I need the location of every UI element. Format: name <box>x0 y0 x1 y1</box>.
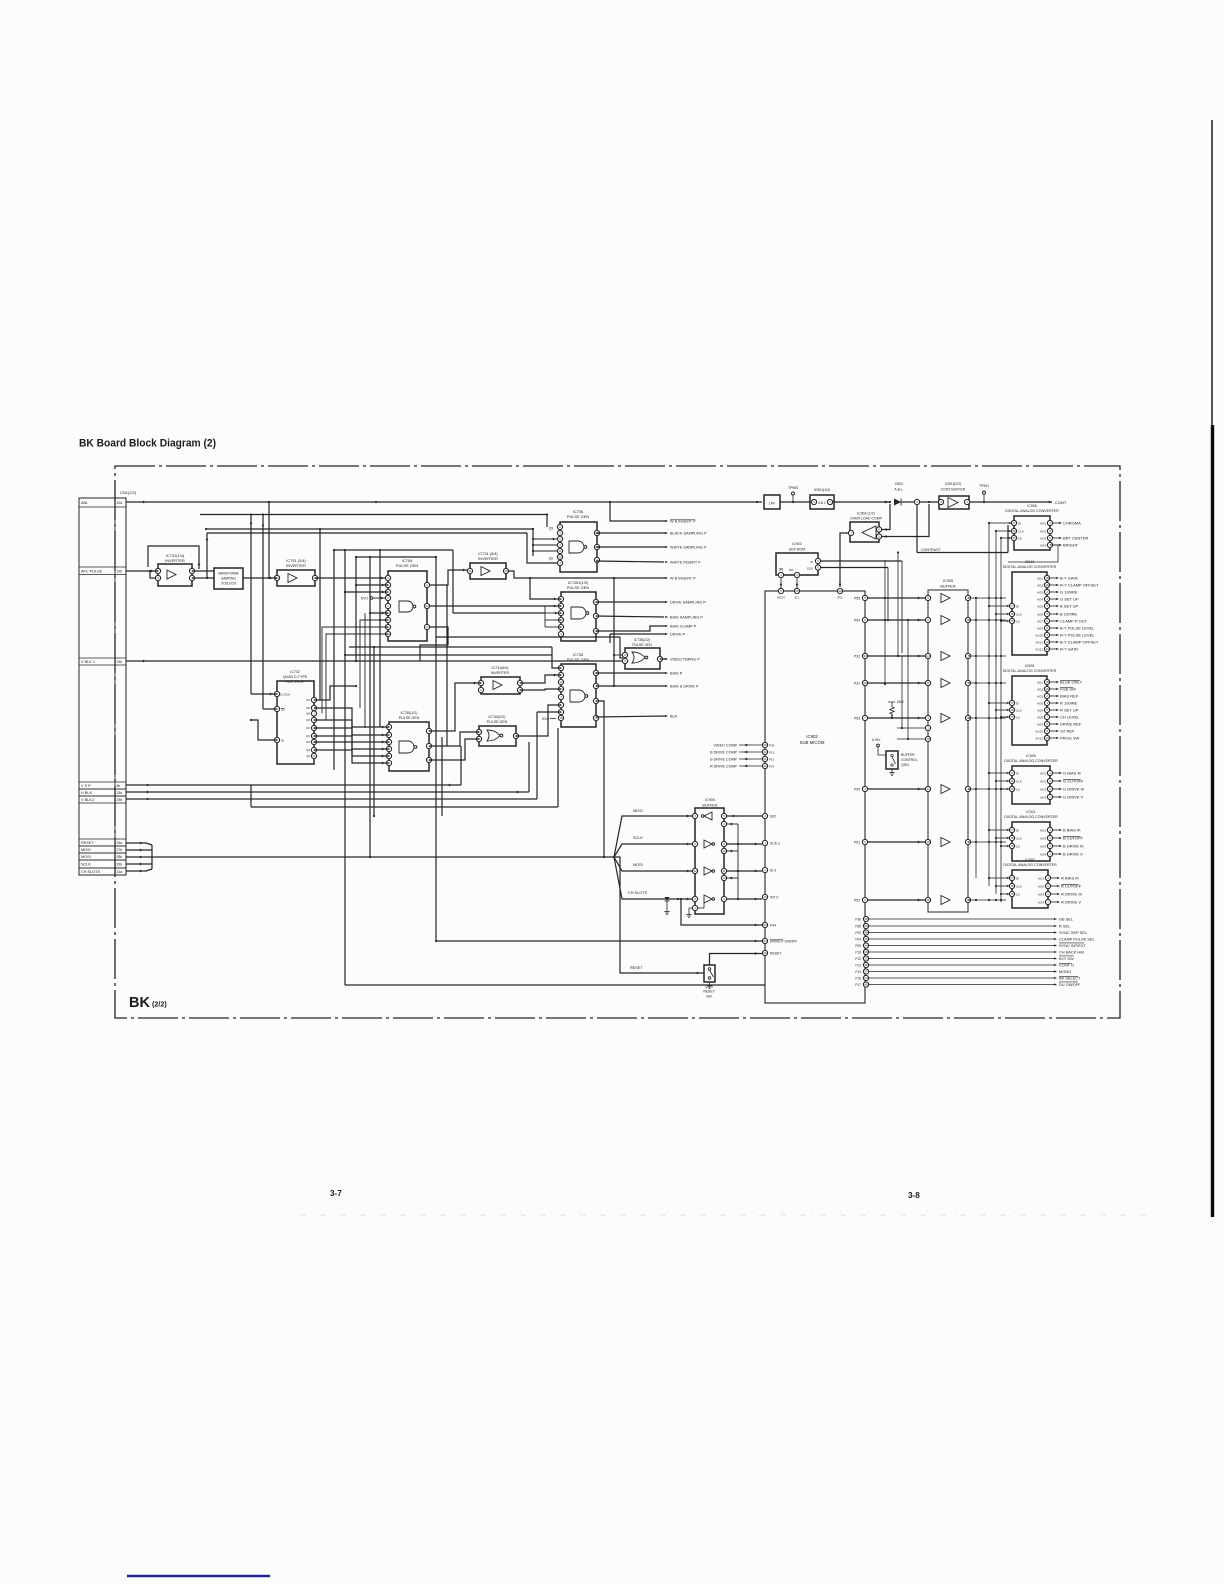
svg-text:13: 13 <box>926 654 930 658</box>
svg-text:P12: P12 <box>855 957 861 961</box>
svg-text:35: 35 <box>864 950 868 954</box>
svg-text:CLK: CLK <box>1016 779 1022 783</box>
svg-text:TP900: TP900 <box>788 486 798 490</box>
svg-text:MONO: MONO <box>1059 969 1071 974</box>
svg-text:AO4: AO4 <box>1038 900 1044 904</box>
svg-text:SO: SO <box>789 568 794 572</box>
svg-text:Q5: Q5 <box>549 527 553 531</box>
svg-text:46: 46 <box>864 983 868 987</box>
svg-text:AO2: AO2 <box>1040 779 1046 783</box>
svg-text:DIGITAL-ANALOG CONVERTER: DIGITAL-ANALOG CONVERTER <box>1003 863 1057 867</box>
svg-text:13: 13 <box>1045 736 1049 740</box>
svg-text:R 100IRE: R 100IRE <box>1060 701 1078 706</box>
svg-text:Q3: Q3 <box>306 748 310 752</box>
svg-text:37: 37 <box>864 970 868 974</box>
svg-text:56: 56 <box>864 924 868 928</box>
svg-text:INT 0: INT 0 <box>770 895 778 899</box>
svg-text:D5V: D5V <box>897 700 904 704</box>
svg-text:16: 16 <box>1012 529 1016 533</box>
svg-text:BUFFER: BUFFER <box>901 753 915 757</box>
svg-text:11: 11 <box>558 549 561 553</box>
svg-text:11: 11 <box>926 681 929 685</box>
svg-text:BIAS P: BIAS P <box>670 672 683 676</box>
svg-text:32: 32 <box>863 681 867 685</box>
svg-text:AO10: AO10 <box>1035 729 1043 733</box>
svg-text:AFC PULSE: AFC PULSE <box>81 569 103 573</box>
svg-text:SYNC SEP SEL: SYNC SEP SEL <box>1059 930 1088 935</box>
svg-text:WAVEFORME: WAVEFORME <box>218 572 239 576</box>
svg-text:B-Y PULSE LEVEL: B-Y PULSE LEVEL <box>1060 626 1095 631</box>
svg-text:MOSI: MOSI <box>633 863 643 867</box>
svg-text:DIGITAL-ANALOG CONVERTER: DIGITAL-ANALOG CONVERTER <box>1003 669 1057 673</box>
svg-text:PULSE GEN: PULSE GEN <box>396 563 418 568</box>
svg-text:AO1: AO1 <box>1040 521 1046 525</box>
svg-text:SI: SI <box>810 560 813 564</box>
svg-text:13: 13 <box>722 876 726 880</box>
svg-text:P11: P11 <box>769 750 774 754</box>
svg-text:WHITE INSERT P: WHITE INSERT P <box>670 561 701 565</box>
svg-text:AO6: AO6 <box>1037 612 1043 616</box>
svg-text:SW: SW <box>706 995 712 999</box>
svg-text:RESET: RESET <box>770 951 781 955</box>
svg-text:G DRIVE IK: G DRIVE IK <box>1063 787 1085 792</box>
svg-text:P02: P02 <box>837 596 843 600</box>
svg-text:P35: P35 <box>855 924 861 928</box>
svg-text:3-8: 3-8 <box>908 1191 920 1200</box>
svg-text:V BLK2: V BLK2 <box>81 798 94 802</box>
svg-text:17: 17 <box>1010 604 1014 608</box>
svg-text:Q2: Q2 <box>306 754 310 758</box>
svg-text:BLK: BLK <box>670 715 678 719</box>
svg-text:P51: P51 <box>854 840 860 844</box>
svg-text:R SEL: R SEL <box>1059 924 1071 929</box>
svg-text:ABL: ABL <box>81 501 88 505</box>
svg-text:AO1: AO1 <box>1038 876 1044 880</box>
svg-text:AO4: AO4 <box>1040 852 1046 856</box>
svg-text:P17: P17 <box>855 983 861 987</box>
svg-text:12: 12 <box>559 680 563 684</box>
svg-text:SAMPING: SAMPING <box>221 577 236 581</box>
svg-text:A.B.L.: A.B.L. <box>894 488 903 492</box>
svg-text:15: 15 <box>1010 715 1014 719</box>
svg-text:IC902: IC902 <box>806 734 818 739</box>
svg-text:B SET UP: B SET UP <box>1060 604 1078 609</box>
svg-text:10: 10 <box>722 849 726 853</box>
svg-text:P53: P53 <box>854 716 860 720</box>
svg-text:R DRIVE IK: R DRIVE IK <box>1061 892 1082 897</box>
svg-text:Q3: Q3 <box>306 734 310 738</box>
svg-text:15: 15 <box>1010 892 1014 896</box>
svg-text:31a: 31a <box>117 870 123 874</box>
svg-text:CONTROL: CONTROL <box>901 758 918 762</box>
svg-text:17: 17 <box>926 787 930 791</box>
svg-text:CLAMP P OUT: CLAMP P OUT <box>1060 619 1088 624</box>
svg-text:SI-2: SI-2 <box>770 868 776 872</box>
svg-text:R BIAS IK: R BIAS IK <box>1061 876 1079 881</box>
svg-text:AO4: AO4 <box>1037 597 1043 601</box>
svg-text:BUFFER: BUFFER <box>702 804 717 808</box>
svg-text:B-Y GAIN: B-Y GAIN <box>1060 576 1078 581</box>
svg-text:26a: 26a <box>117 841 123 845</box>
svg-text:18: 18 <box>926 840 930 844</box>
svg-text:V BLK 1: V BLK 1 <box>81 660 95 664</box>
svg-text:R-Y GAIN: R-Y GAIN <box>1060 647 1078 652</box>
svg-text:12: 12 <box>425 604 429 608</box>
svg-text:IC907: IC907 <box>1025 858 1035 862</box>
svg-text:DI: DI <box>1016 828 1019 832</box>
svg-text:AO12: AO12 <box>1035 736 1043 740</box>
svg-text:AO9: AO9 <box>1037 626 1043 630</box>
svg-text:DI: DI <box>1016 876 1019 880</box>
svg-text:PULSE GEN: PULSE GEN <box>567 585 589 590</box>
svg-text:33: 33 <box>864 957 868 961</box>
svg-text:PULSE GEN: PULSE GEN <box>487 720 508 724</box>
svg-text:CONT BUFFER: CONT BUFFER <box>941 488 966 492</box>
svg-text:3-7: 3-7 <box>330 1189 342 1198</box>
svg-text:P32: P32 <box>854 654 860 658</box>
svg-text:12: 12 <box>693 869 697 873</box>
svg-text:DI: DI <box>1016 701 1019 705</box>
svg-text:33: 33 <box>863 654 867 658</box>
svg-text:16: 16 <box>1010 884 1014 888</box>
svg-text:IK/Y SW: IK/Y SW <box>1059 956 1074 961</box>
svg-text:Q901: Q901 <box>901 763 909 767</box>
svg-text:Q0: Q0 <box>549 557 553 561</box>
svg-text:P36: P36 <box>855 917 861 921</box>
svg-text:SCLK: SCLK <box>633 836 643 840</box>
svg-text:PULSE GEN: PULSE GEN <box>399 716 420 720</box>
svg-text:Q0: Q0 <box>306 712 310 716</box>
svg-text:SCLK: SCLK <box>81 863 91 867</box>
svg-text:P44: P44 <box>770 923 776 927</box>
svg-text:IC911: IC911 <box>1026 810 1035 814</box>
svg-text:AO12: AO12 <box>1035 647 1043 651</box>
svg-text:19: 19 <box>1045 583 1049 587</box>
svg-text:CLK: CLK <box>1018 529 1024 533</box>
svg-text:AO1: AO1 <box>1037 576 1043 580</box>
svg-text:P55: P55 <box>854 596 860 600</box>
svg-text:43: 43 <box>763 939 767 943</box>
svg-text:INVERTER: INVERTER <box>286 563 306 568</box>
svg-text:G BIAS IK: G BIAS IK <box>1063 771 1082 776</box>
svg-text:AO5: AO5 <box>1037 701 1043 705</box>
svg-text:IC732: IC732 <box>290 670 300 674</box>
svg-text:EEP ROM: EEP ROM <box>789 548 805 552</box>
svg-text:15: 15 <box>1012 536 1016 540</box>
svg-text:24b: 24b <box>117 660 123 664</box>
svg-text:IC905: IC905 <box>943 579 953 583</box>
svg-text:B BIAS IK: B BIAS IK <box>1063 828 1081 833</box>
svg-text:INVERTER: INVERTER <box>165 558 185 563</box>
svg-text:TP901: TP901 <box>979 484 989 488</box>
svg-text:18: 18 <box>1045 576 1049 580</box>
svg-text:B DRIVE COMP: B DRIVE COMP <box>710 750 737 754</box>
svg-text:17: 17 <box>1012 521 1016 525</box>
svg-text:DRIVE SAMPLING P: DRIVE SAMPLING P <box>670 601 706 605</box>
svg-text:H BLK: H BLK <box>81 791 92 795</box>
svg-text:41: 41 <box>763 757 767 761</box>
svg-text:17: 17 <box>1010 828 1014 832</box>
svg-text:MISO: MISO <box>81 848 91 852</box>
svg-text:AO2: AO2 <box>1037 687 1043 691</box>
svg-text:QUAD D-TYPE: QUAD D-TYPE <box>283 675 308 679</box>
svg-text:RESET: RESET <box>630 966 643 970</box>
svg-text:P03: P03 <box>855 931 861 935</box>
svg-text:CLK: CLK <box>1016 836 1022 840</box>
svg-text:IC900: IC900 <box>705 798 715 802</box>
svg-text:17: 17 <box>1010 876 1014 880</box>
svg-text:PROG SW: PROG SW <box>1060 736 1080 741</box>
svg-text:DIGITAL-ANALOG CONVERTER: DIGITAL-ANALOG CONVERTER <box>1005 509 1059 513</box>
svg-text:25b: 25b <box>117 798 123 802</box>
svg-text:GB SEL: GB SEL <box>1059 917 1074 922</box>
svg-text:CLAMP PULSE SEL: CLAMP PULSE SEL <box>1059 937 1095 942</box>
svg-text:15: 15 <box>1010 844 1014 848</box>
svg-text:55: 55 <box>763 743 767 747</box>
svg-text:AO4: AO4 <box>1040 543 1046 547</box>
svg-text:DIGITAL-ANALOG CONVERTER: DIGITAL-ANALOG CONVERTER <box>1004 815 1058 819</box>
svg-text:0728,0729: 0728,0729 <box>221 582 236 586</box>
svg-text:CH SLOTS: CH SLOTS <box>81 870 100 874</box>
svg-text:IC903: IC903 <box>792 542 801 546</box>
svg-text:FLIP-FLOP: FLIP-FLOP <box>286 680 305 684</box>
svg-text:(2/2): (2/2) <box>152 1000 167 1009</box>
svg-text:D0: D0 <box>306 706 310 710</box>
svg-text:16: 16 <box>1010 708 1014 712</box>
svg-text:DIGITAL-ANALOG CONVERTER: DIGITAL-ANALOG CONVERTER <box>1003 565 1057 569</box>
svg-text:INVERTER: INVERTER <box>491 671 510 675</box>
svg-text:AO6: AO6 <box>1037 708 1043 712</box>
svg-text:DRIVE REF: DRIVE REF <box>1060 722 1082 727</box>
svg-text:S02: S02 <box>770 814 776 818</box>
svg-text:AO3: AO3 <box>1040 536 1046 540</box>
svg-text:R-Y PULSE LEVEL: R-Y PULSE LEVEL <box>1060 633 1095 638</box>
svg-text:G DRIVE V: G DRIVE V <box>1063 795 1084 800</box>
svg-text:D2: D2 <box>306 726 310 730</box>
svg-text:29: 29 <box>763 951 767 955</box>
svg-text:MOSI: MOSI <box>81 855 91 859</box>
svg-text:P52: P52 <box>854 898 860 902</box>
svg-text:IC730(2/2): IC730(2/2) <box>489 715 506 719</box>
svg-text:CLK: CLK <box>1016 708 1022 712</box>
svg-text:DI: DI <box>1016 604 1019 608</box>
svg-text:BRT CENTER: BRT CENTER <box>1063 536 1089 541</box>
svg-text:48: 48 <box>864 931 868 935</box>
svg-text:IC909: IC909 <box>1026 754 1036 758</box>
svg-text:SUB MICOM: SUB MICOM <box>800 740 825 745</box>
svg-text:R-Y CLAMP OFFSET: R-Y CLAMP OFFSET <box>1060 583 1099 588</box>
svg-text:VIDEO TIMING P: VIDEO TIMING P <box>670 658 700 662</box>
svg-text:PULSE GEN: PULSE GEN <box>567 514 589 519</box>
svg-text:G 100IRE: G 100IRE <box>1060 590 1078 595</box>
svg-text:AO3: AO3 <box>1040 844 1046 848</box>
svg-text:AO1: AO1 <box>1040 828 1046 832</box>
svg-text:CHROMA: CHROMA <box>1063 521 1081 526</box>
svg-text:D1: D1 <box>306 698 310 702</box>
svg-text:15: 15 <box>926 898 930 902</box>
svg-text:16: 16 <box>1010 779 1014 783</box>
svg-text:28b: 28b <box>117 855 123 859</box>
svg-text:AO2: AO2 <box>1040 529 1046 533</box>
svg-text:56: 56 <box>795 589 799 593</box>
svg-text:19b: 19b <box>117 569 123 573</box>
svg-text:B DRIVE V: B DRIVE V <box>1063 852 1083 857</box>
svg-text:AO1: AO1 <box>1040 771 1046 775</box>
svg-text:BRIGHT: BRIGHT <box>1063 543 1079 548</box>
svg-text:IC901(2/2): IC901(2/2) <box>945 482 962 486</box>
svg-text:9b: 9b <box>117 784 121 788</box>
svg-text:40: 40 <box>838 589 842 593</box>
svg-text:AO3: AO3 <box>1038 892 1044 896</box>
svg-text:AO7: AO7 <box>1037 619 1043 623</box>
svg-text:D3: D3 <box>306 740 310 744</box>
svg-text:AO2: AO2 <box>1037 583 1043 587</box>
svg-text:AO8: AO8 <box>1037 715 1043 719</box>
svg-text:CH LEVEL: CH LEVEL <box>1060 715 1080 720</box>
svg-text:BIAS & DRIVE P: BIAS & DRIVE P <box>670 685 699 689</box>
svg-text:16: 16 <box>1010 836 1014 840</box>
svg-text:CN1(2/2): CN1(2/2) <box>120 490 137 495</box>
svg-text:G SET UP: G SET UP <box>1060 597 1079 602</box>
svg-text:SCK-2: SCK-2 <box>770 841 780 845</box>
svg-text:SVO: SVO <box>361 597 369 601</box>
svg-text:A+5V: A+5V <box>872 738 881 742</box>
svg-text:P16: P16 <box>855 950 861 954</box>
svg-text:IC730(1/2): IC730(1/2) <box>401 711 418 715</box>
svg-text:AO3: AO3 <box>1037 694 1043 698</box>
svg-text:44: 44 <box>864 944 868 948</box>
svg-text:10a: 10a <box>117 501 123 505</box>
svg-text:W B INSERT P: W B INSERT P <box>670 520 696 524</box>
svg-text:40: 40 <box>763 750 767 754</box>
svg-text:B DRIVE IK: B DRIVE IK <box>1063 844 1084 849</box>
svg-text:19: 19 <box>1045 687 1049 691</box>
svg-text:23a: 23a <box>117 791 123 795</box>
svg-text:DU ON/OFF: DU ON/OFF <box>1059 982 1081 987</box>
svg-text:P34: P34 <box>769 743 775 747</box>
svg-text:P31: P31 <box>854 681 860 685</box>
svg-text:WHITE SAMPLING P: WHITE SAMPLING P <box>670 546 707 550</box>
svg-text:V S P: V S P <box>81 784 91 788</box>
svg-text:IC901(1/2): IC901(1/2) <box>814 488 831 492</box>
svg-text:BUFFER: BUFFER <box>940 585 955 589</box>
svg-text:INVERTER: INVERTER <box>478 556 498 561</box>
svg-text:SYNC INT/EXT: SYNC INT/EXT <box>1059 943 1086 948</box>
svg-text:RESET: RESET <box>703 990 714 994</box>
svg-text:27b: 27b <box>117 848 123 852</box>
svg-text:CLOCK: CLOCK <box>280 693 290 697</box>
svg-text:17: 17 <box>1010 701 1014 705</box>
svg-text:ADST: ADST <box>777 596 785 600</box>
svg-text:DI: DI <box>1016 771 1019 775</box>
svg-text:R DRIVE COMP: R DRIVE COMP <box>710 764 738 768</box>
svg-text:AO4: AO4 <box>1040 795 1046 799</box>
svg-text:LPF: LPF <box>769 502 776 506</box>
svg-text:P04: P04 <box>855 937 861 941</box>
svg-text:G2 REF: G2 REF <box>1060 729 1075 734</box>
svg-text:18: 18 <box>1045 680 1049 684</box>
svg-text:CH SLOTS: CH SLOTS <box>628 891 647 895</box>
svg-text:P10: P10 <box>769 757 775 761</box>
svg-text:G DRIVE COMP: G DRIVE COMP <box>710 757 738 761</box>
svg-text:DIGITAL-ANALOG CONVERTER: DIGITAL-ANALOG CONVERTER <box>1004 759 1058 763</box>
svg-text:29b: 29b <box>117 863 123 867</box>
svg-text:15: 15 <box>1010 787 1014 791</box>
svg-text:PULSE GEN: PULSE GEN <box>632 643 652 647</box>
svg-text:CLK: CLK <box>1016 612 1022 616</box>
svg-text:BLACK SAMPLING P: BLACK SAMPLING P <box>670 532 707 536</box>
svg-text:P15: P15 <box>855 976 861 980</box>
svg-text:B-Y CLAMP OFFSET: B-Y CLAMP OFFSET <box>1060 640 1099 645</box>
svg-text:11: 11 <box>312 754 315 758</box>
svg-text:15: 15 <box>1010 619 1014 623</box>
svg-text:W B INSERT P: W B INSERT P <box>670 577 696 581</box>
svg-text:10: 10 <box>559 716 563 720</box>
svg-text:A B L: A B L <box>818 501 826 505</box>
svg-text:17: 17 <box>1010 771 1014 775</box>
svg-text:P14: P14 <box>855 970 861 974</box>
svg-text:R SET UP: R SET UP <box>1060 708 1079 713</box>
svg-text:BIAS CLAMP P: BIAS CLAMP P <box>670 625 697 629</box>
svg-text:BIAS SAMPLING P: BIAS SAMPLING P <box>670 616 703 620</box>
svg-text:BIAS REF: BIAS REF <box>1060 694 1079 699</box>
svg-text:58: 58 <box>864 917 868 921</box>
svg-text:B 100IRE: B 100IRE <box>1060 612 1077 617</box>
svg-text:36: 36 <box>864 963 868 967</box>
svg-text:13: 13 <box>1045 647 1049 651</box>
svg-text:BK: BK <box>129 995 150 1011</box>
svg-text:CONT: CONT <box>1055 500 1067 505</box>
svg-text:12: 12 <box>1045 640 1049 644</box>
svg-text:SI 1: SI 1 <box>794 596 800 600</box>
svg-text:AO2: AO2 <box>1038 884 1044 888</box>
svg-text:AO10: AO10 <box>1035 633 1043 637</box>
svg-text:11: 11 <box>722 869 725 873</box>
svg-text:IC731(6/4): IC731(6/4) <box>492 666 509 670</box>
svg-text:CLK: CLK <box>1016 884 1022 888</box>
svg-text:42: 42 <box>763 764 767 768</box>
svg-text:DRIVE P: DRIVE P <box>670 633 686 637</box>
svg-text:AO11: AO11 <box>1036 640 1044 644</box>
svg-text:AO9: AO9 <box>1037 722 1043 726</box>
svg-text:P07: P07 <box>769 764 775 768</box>
svg-text:OVER LOAD COMP: OVER LOAD COMP <box>850 517 883 521</box>
svg-text:IC904 (1/2): IC904 (1/2) <box>857 512 875 516</box>
svg-text:10: 10 <box>504 569 508 573</box>
svg-text:P54: P54 <box>854 618 860 622</box>
svg-text:AO2: AO2 <box>1040 836 1046 840</box>
svg-text:15: 15 <box>763 895 767 899</box>
svg-text:P13: P13 <box>855 963 861 967</box>
svg-text:R DRIVE V: R DRIVE V <box>1061 900 1081 905</box>
svg-text:CONTRAST: CONTRAST <box>921 548 942 552</box>
svg-text:12: 12 <box>558 555 562 559</box>
svg-text:Q0: Q0 <box>306 718 310 722</box>
svg-text:18: 18 <box>926 737 930 741</box>
svg-text:IC906: IC906 <box>1027 504 1037 508</box>
svg-text:34: 34 <box>864 976 868 980</box>
svg-text:56: 56 <box>763 923 767 927</box>
svg-text:AO5: AO5 <box>1037 604 1043 608</box>
svg-text:11: 11 <box>468 569 471 573</box>
svg-text:BK Board Block Diagram (2): BK Board Block Diagram (2) <box>79 438 216 450</box>
svg-text:16: 16 <box>1010 612 1014 616</box>
svg-text:P05: P05 <box>855 944 861 948</box>
svg-text:SCK: SCK <box>807 567 813 571</box>
svg-text:AO3: AO3 <box>1040 787 1046 791</box>
svg-text:MISO: MISO <box>633 809 643 813</box>
svg-text:VIDEO COMP: VIDEO COMP <box>713 743 737 747</box>
